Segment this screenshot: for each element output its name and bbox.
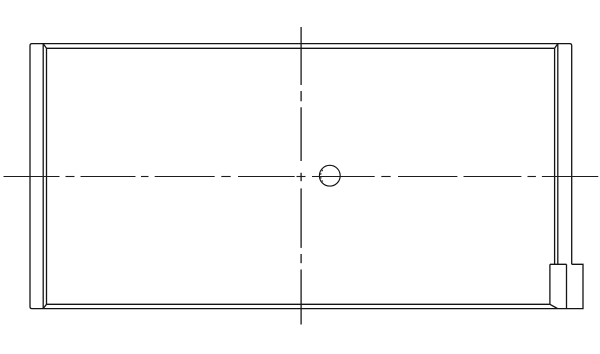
horizontal centerline dash 6 [221, 176, 230, 178]
horizontal centerline dash 11 [398, 176, 457, 178]
lug left edge [549, 264, 551, 304]
outer outline of bearing shell (with lug protrusion bottom right) [30, 44, 583, 309]
horizontal centerline dash 8 (centre cross) [297, 176, 306, 178]
lug inner right edge [566, 264, 568, 308]
horizontal centerline dash 9 (through hole) [312, 176, 375, 178]
right parting-face line [557, 44, 559, 265]
vertical centerline dash 2 [300, 91, 302, 101]
horizontal centerline dash 7 [238, 176, 295, 178]
left chamfer line [46, 48, 48, 304]
right chamfer line [554, 48, 556, 264]
bottom-left chamfer diagonal [43, 304, 46, 308]
horizontal centerline dash 13 [528, 176, 536, 178]
horizontal centerline dash 2 [66, 176, 75, 178]
top-right chamfer diagonal [555, 44, 558, 49]
lug top edge [550, 263, 567, 265]
horizontal centerline dash 5 [155, 176, 215, 178]
vertical centerline dash 5 [300, 188, 302, 248]
vertical centerline dash 1 [300, 27, 302, 85]
top-left chamfer diagonal [43, 44, 46, 49]
lug bottom chamfer diagonal [550, 304, 558, 308]
left parting-face line [42, 44, 44, 309]
horizontal centerline dash 14 [542, 176, 598, 178]
vertical centerline dash 4 (centre cross) [300, 173, 302, 181]
vertical centerline dash 6 [300, 254, 302, 263]
horizontal centerline dash 12 [464, 176, 522, 178]
vertical centerline dash 7 [300, 270, 302, 325]
top inner edge line [47, 47, 555, 49]
horizontal centerline dash 10 [381, 176, 390, 178]
vertical centerline dash 3 [300, 107, 302, 161]
horizontal centerline dash 3 [81, 176, 136, 178]
bottom inner edge line [47, 303, 550, 305]
horizontal centerline dash 1 [4, 176, 60, 178]
oil hole inner chamfer arc (left side) [321, 170, 323, 182]
horizontal centerline dash 4 [141, 176, 149, 178]
oil hole circle [319, 165, 340, 186]
